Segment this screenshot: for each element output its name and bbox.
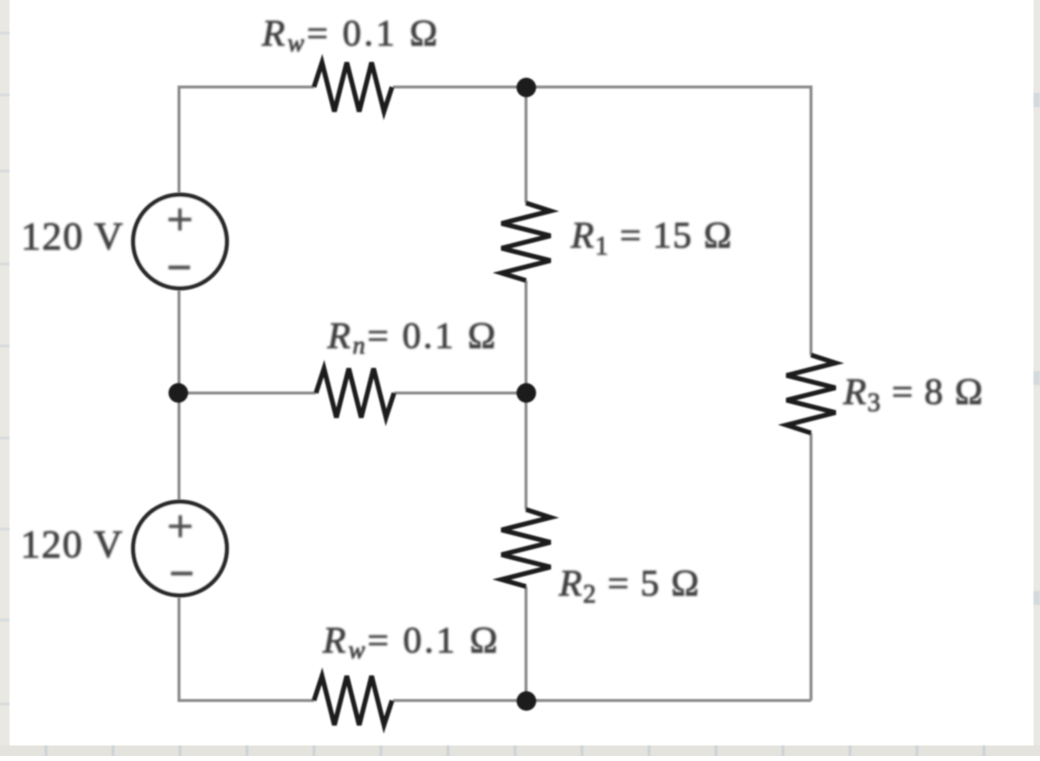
svg-text:120 V: 120 V bbox=[21, 214, 124, 258]
wire neutral right part bbox=[394, 392, 526, 395]
wire top left segment bbox=[179, 87, 314, 193]
node center neutral bbox=[517, 383, 537, 403]
wire bottom right segment bbox=[393, 699, 811, 702]
resistor Rw bottom bbox=[314, 676, 392, 725]
right page-edge strip bbox=[1034, 0, 1040, 756]
node bottom bbox=[517, 691, 537, 711]
wire middle vertical lower bbox=[525, 587, 528, 701]
resistor Rn bbox=[316, 369, 394, 418]
wire top right segment bbox=[393, 87, 811, 355]
svg-text:R1 = 15 Ω: R1 = 15 Ω bbox=[570, 216, 733, 261]
resistor R2 bbox=[502, 510, 551, 587]
source V2 plus and minus bbox=[169, 515, 193, 573]
source V1 circle bbox=[133, 195, 227, 289]
svg-text:R2 = 5 Ω: R2 = 5 Ω bbox=[558, 563, 701, 608]
wire middle vertical center bbox=[525, 281, 528, 510]
resistor Rw top bbox=[314, 63, 392, 112]
resistor R1 bbox=[502, 203, 551, 281]
source V1 plus and minus bbox=[169, 209, 192, 268]
wire left bottom segment bbox=[179, 598, 314, 701]
node left neutral bbox=[169, 383, 189, 403]
source V2 circle bbox=[133, 502, 227, 596]
wire left mid segment bbox=[178, 291, 181, 500]
wire middle vertical upper bbox=[525, 87, 528, 203]
svg-text:120 V: 120 V bbox=[21, 522, 124, 566]
left page-edge strip bbox=[0, 0, 10, 756]
resistor R3 bbox=[787, 355, 836, 433]
wire right lower segment bbox=[810, 433, 813, 701]
svg-text:R3 = 8 Ω: R3 = 8 Ω bbox=[842, 372, 984, 417]
wire neutral left part bbox=[179, 392, 316, 395]
svg-text:Rn= 0.1 Ω: Rn= 0.1 Ω bbox=[327, 316, 499, 360]
node top (joins Rw top to R1 branch) bbox=[517, 78, 537, 98]
bottom page-edge strip (graph paper) bbox=[0, 746, 1040, 757]
